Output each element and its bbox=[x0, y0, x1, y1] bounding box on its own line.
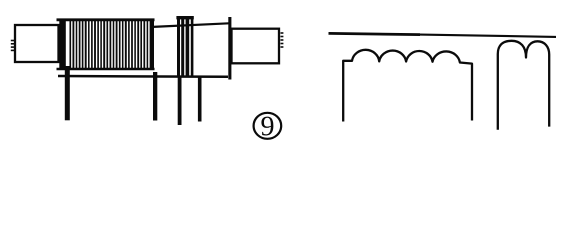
main winding wire turns (hatch lines) bbox=[70, 21, 150, 69]
right end cap hatch dashes bbox=[281, 33, 284, 47]
schematic top wire bbox=[329, 33, 421, 34]
main winding right flange bbox=[151, 19, 154, 69]
bobbin base plate bbox=[58, 75, 228, 78]
left end cap hatch dashes bbox=[11, 41, 14, 51]
main winding left flange bbox=[59, 19, 66, 69]
lead pin 1 bbox=[65, 66, 70, 120]
lead pin 4 bbox=[198, 76, 202, 122]
figure label circle 9 bbox=[254, 113, 282, 139]
secondary winding wire turns bbox=[179, 17, 193, 76]
lead pin 3 bbox=[178, 76, 182, 125]
secondary winding group cap bbox=[176, 16, 193, 19]
inductor symbol L1 (4 loops) bbox=[343, 50, 472, 122]
main winding block outline bbox=[57, 20, 155, 69]
bobbin right flange bbox=[228, 17, 231, 80]
inductor symbol L2 (2 loops) bbox=[498, 41, 549, 130]
inductor L (pictorial) left end cap bbox=[15, 25, 59, 62]
lead pin 2 bbox=[153, 72, 157, 121]
bobbin top edge (right section) bbox=[153, 23, 229, 27]
right end cap bbox=[232, 29, 280, 64]
